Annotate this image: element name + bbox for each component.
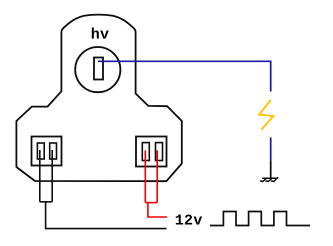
red 12v wire right (156, 150, 158, 202)
blue return wire below spark (270, 137, 272, 160)
right socket (12v) outer (136, 137, 167, 167)
square wave drive signal (210, 212, 310, 226)
black primary wire right (51, 150, 53, 202)
black primary wire left (39, 150, 41, 202)
black wire down and right to supply (46, 202, 167, 229)
hv terminal pin (94, 58, 103, 80)
right socket slot 1 (142, 143, 149, 161)
spark lightning bolt (259, 100, 273, 130)
black wire to ground (270, 160, 272, 178)
black join wire (40, 201, 52, 203)
left socket slot 2 (50, 143, 57, 159)
left socket (primary) outer (32, 137, 62, 166)
red join wire (145, 202, 157, 204)
ground symbol (261, 178, 278, 182)
svg-text:12v: 12v (175, 213, 203, 230)
hv terminal circle (75, 47, 120, 92)
svg-text:hv: hv (91, 27, 110, 44)
red 12v wire left (144, 150, 146, 202)
flyback transformer body outline (16, 15, 181, 182)
right socket slot 2 (156, 143, 163, 161)
red wire down and right to 12v (148, 203, 167, 217)
blue HV wire to spark gap (98, 61, 271, 91)
left socket slot 1 (37, 143, 44, 159)
